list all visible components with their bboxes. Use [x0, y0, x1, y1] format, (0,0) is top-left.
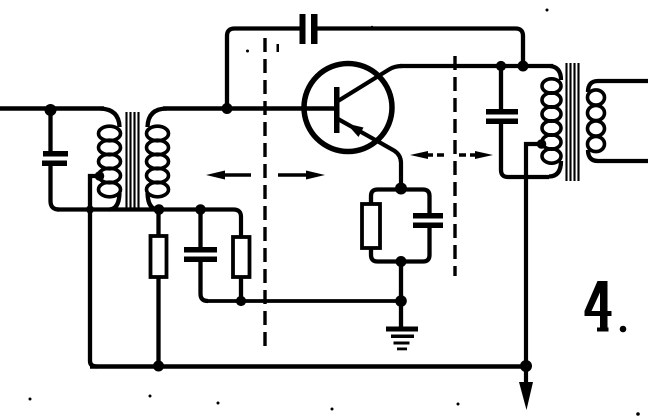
transformer T1 primary top curve — [100, 109, 120, 128]
transformer T2 core — [567, 63, 579, 181]
capacitor C5 lead top — [499, 66, 503, 110]
node tap crossing — [86, 206, 94, 214]
node T2 tap — [537, 139, 547, 149]
transformer T2 secondary top lead — [588, 81, 648, 92]
node collector-capacitor junction — [496, 61, 506, 71]
node input junction — [45, 104, 57, 116]
node collector-feedback junction — [518, 61, 529, 72]
transformer T1 secondary top curve — [148, 109, 168, 128]
resistor R2 lead bottom — [239, 277, 243, 301]
node bias-ground junction — [395, 295, 407, 307]
node emitter junction — [395, 183, 407, 195]
wire feedback top left — [227, 29, 300, 109]
dashed boundary line right — [453, 56, 456, 276]
transformer T2 primary bottom curve — [549, 161, 561, 177]
wire feedback top right — [318, 29, 524, 67]
node R2 bottom — [236, 296, 246, 306]
capacitor C1 (input shunt) lead top — [48, 110, 52, 151]
capacitor C2 lead top — [198, 210, 202, 248]
wire emitter network bottom rail — [371, 228, 430, 262]
node C2 top junction — [195, 204, 206, 215]
resistor R1 body — [151, 236, 167, 277]
transformer T1 primary winding — [99, 126, 121, 197]
ground — [386, 327, 418, 351]
wire main input line y=108 — [0, 106, 104, 111]
capacitor C1 plates — [43, 151, 68, 157]
node output junction — [520, 360, 532, 372]
transformer T1 core — [127, 112, 139, 208]
capacitor C2 lead bottom — [201, 262, 209, 301]
capacitor C3 (feedback) plates — [300, 14, 306, 44]
resistor R1 lead bottom — [156, 277, 160, 366]
transistor Q1 collector stroke — [338, 66, 402, 101]
arrow right-pointing lower — [278, 173, 309, 176]
dashed boundary line left — [263, 38, 266, 352]
capacitor C4 plates — [413, 213, 443, 219]
capacitor C2 plates — [184, 247, 217, 253]
node R1 bottom rail — [153, 361, 164, 372]
transistor Q1 emitter arrow — [347, 124, 364, 138]
wire bottom bias bus y=210 — [57, 210, 241, 238]
node emitter network bottom — [396, 256, 407, 267]
resistor R3 body — [362, 204, 380, 248]
resistor R2 body — [233, 237, 250, 277]
node T1 secondary bottom — [154, 204, 165, 215]
output arrow — [524, 366, 528, 384]
arrow right-pointing upper — [459, 153, 478, 156]
node base-feedback junction — [222, 103, 233, 114]
transistor Q1 base bar — [334, 87, 340, 133]
capacitor C1 lead bottom — [51, 166, 60, 210]
transformer T1 primary bottom curve — [109, 193, 120, 210]
transistor Q1 circle — [304, 64, 392, 152]
transformer T2 tap wire — [526, 144, 540, 366]
transformer T1 tap wire — [90, 176, 99, 367]
figure number 4. — [585, 281, 627, 332]
arrow left-pointing lower — [206, 171, 225, 180]
transformer T2 secondary winding — [588, 90, 605, 152]
capacitor C5 lead bottom — [501, 124, 549, 177]
transformer T1 secondary bottom curve — [148, 193, 159, 210]
arrow left-pointing upper — [410, 151, 428, 159]
capacitor C5 plates — [486, 109, 518, 115]
wire emitter to ground — [399, 262, 403, 328]
resistor R1 lead top — [156, 210, 160, 237]
wire emitter network top rail — [371, 190, 430, 214]
transformer T2 secondary bottom lead — [588, 150, 648, 161]
node T1 tap — [95, 171, 105, 181]
wire bottom rail y=366 — [90, 364, 526, 369]
transformer T2 primary top curve — [550, 66, 561, 80]
transistor Q1 emitter stroke — [338, 119, 401, 188]
transformer T2 primary winding — [542, 79, 561, 163]
wire collector line y=66 — [400, 64, 553, 68]
transformer T1 secondary winding — [147, 126, 169, 197]
wire bias line to emitter ground y=301 — [206, 299, 401, 303]
